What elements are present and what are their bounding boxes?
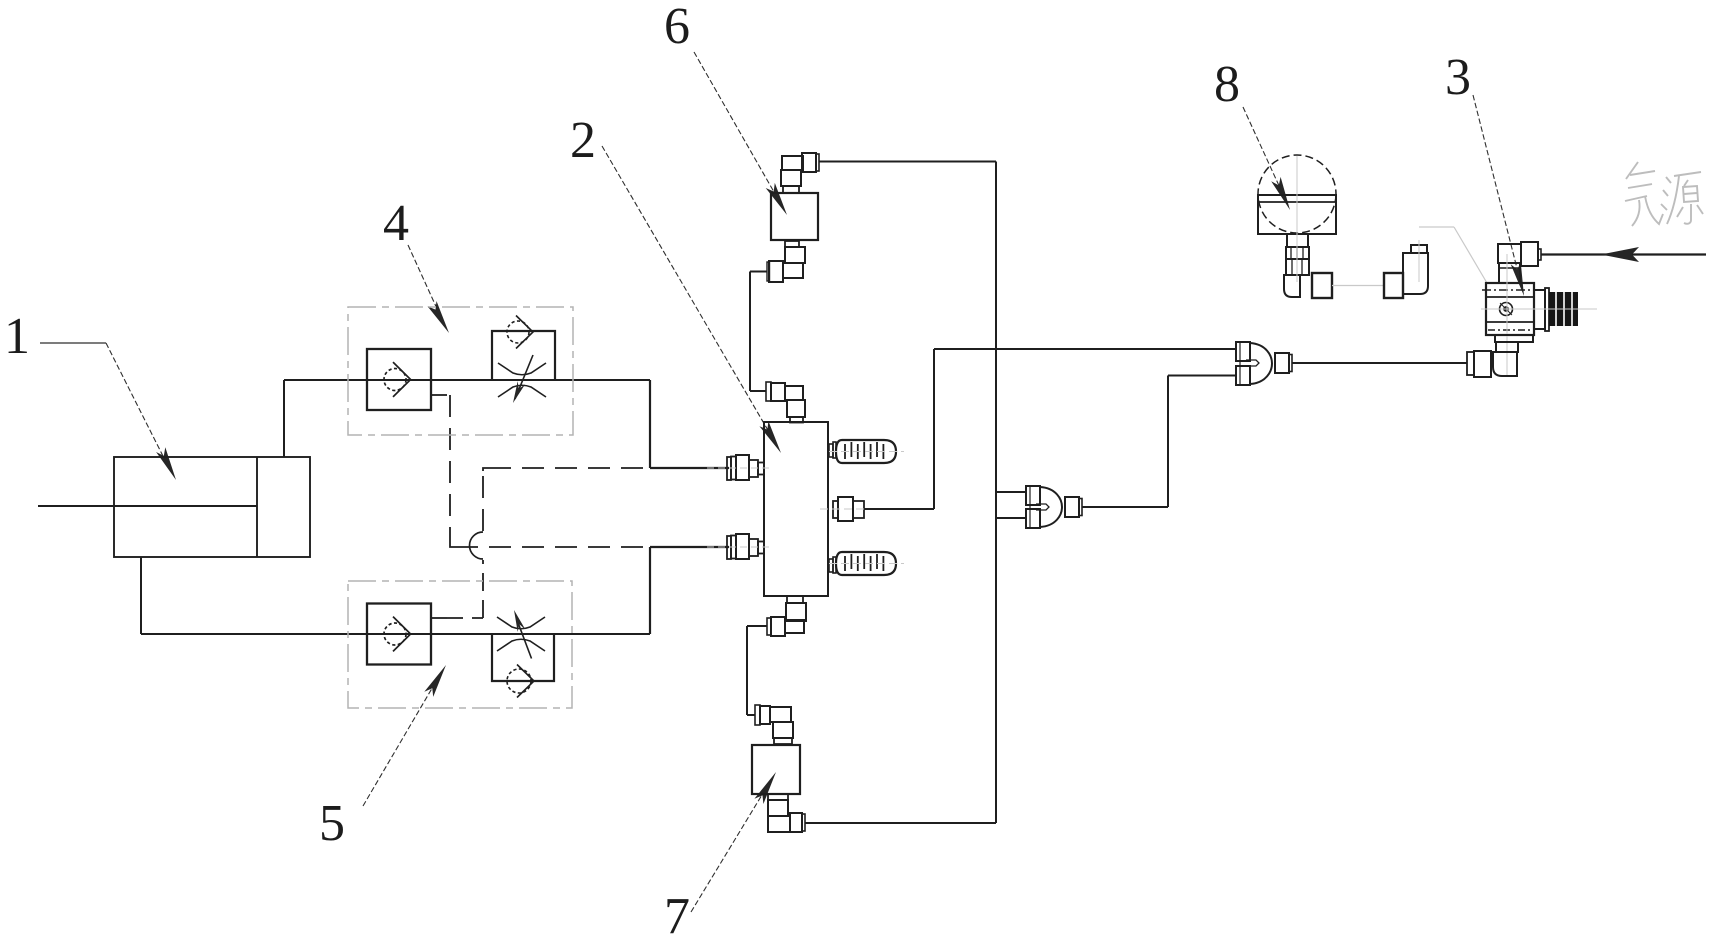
svg-text:5: 5 [319,795,345,852]
svg-text:2: 2 [570,112,596,169]
svg-text:6: 6 [664,0,690,55]
svg-text:1: 1 [4,308,30,365]
svg-text:7: 7 [664,888,690,940]
svg-text:8: 8 [1214,56,1240,113]
svg-text:3: 3 [1445,49,1471,106]
svg-text:4: 4 [383,195,409,252]
